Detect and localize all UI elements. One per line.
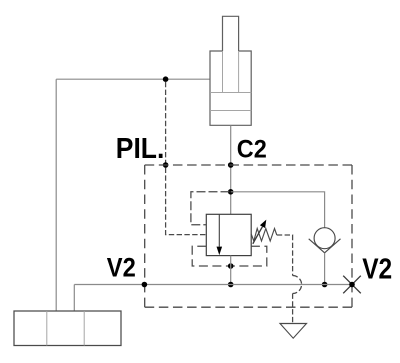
spring vent dashed line to drain: [277, 235, 293, 276]
wire: left riser down to tank: [55, 79, 57, 311]
spring vent dashed continuation to drain triangle: [292, 294, 294, 324]
node: check valve branch on V2 line: [322, 282, 328, 288]
cylinder piston lines: [210, 92, 251, 94]
check valve: seat V: [309, 239, 341, 253]
wire: V2 bottom line: [74, 284, 352, 286]
node: pilot tap junction on top wire: [163, 76, 169, 82]
svg-text:PIL.: PIL.: [116, 133, 165, 165]
node: branch to check valve: [228, 189, 234, 195]
wire: valve outlet down to V2 line: [230, 256, 232, 285]
tank / manifold block: [14, 311, 121, 346]
node: valve outlet on V2 line: [228, 282, 234, 288]
plugged port X at V2 boundary: [343, 276, 361, 294]
outer dashed cartridge boundary box: [145, 165, 352, 307]
spring (adjustable) on valve right side: [251, 229, 277, 242]
drain triangle: [280, 324, 307, 339]
node: C2 wire crossing outer box top edge: [228, 162, 234, 168]
node: drain crossing on spring chamber box: [228, 263, 234, 269]
node: pilot line crossing outer box top edge: [163, 162, 169, 168]
cylinder body (open where rod passes): [210, 51, 251, 125]
cylinder internal rod lines: [222, 51, 224, 93]
pilot loop (dashed) from branch node to valve upper left port: [191, 192, 230, 225]
wire: V2 drop to tank: [73, 285, 75, 312]
wire: top horizontal from left riser to cylinder port: [56, 78, 210, 80]
wire: branch to check valve (solid): [231, 192, 325, 228]
svg-text:V2: V2: [107, 252, 136, 282]
node: V2 line crossing outer box left edge: [142, 282, 148, 288]
check valve: ball circle: [314, 228, 335, 249]
valve internal flow line with down arrow: [218, 214, 220, 246]
svg-text:V2: V2: [362, 253, 392, 285]
spring chamber dashed box below valve: [192, 246, 267, 266]
wire: check valve to V2 line: [324, 253, 326, 285]
pilot line PIL. (dashed) down and into valve left side: [166, 82, 207, 235]
tank divider lines: [46, 311, 48, 346]
hop arc over V2 line: [293, 276, 302, 294]
valve V1 body (counterbalance main stage square): [206, 214, 251, 255]
wire C2: cylinder bottom to valve top: [230, 125, 232, 214]
svg-text:C2: C2: [237, 136, 267, 164]
adjustment arrow through spring: [253, 227, 263, 244]
node: plug junction: [349, 282, 355, 288]
cylinder rod (top rectangle, open bottom): [223, 16, 239, 51]
